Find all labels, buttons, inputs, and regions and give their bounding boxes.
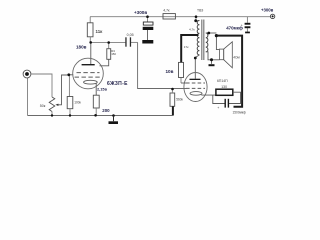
svg-text:130: 130 bbox=[221, 85, 227, 89]
tube V1 grid dashes g2 bbox=[75, 73, 100, 78]
node primary bottom plate V2 bbox=[194, 57, 197, 60]
capacitor 1500u plates bbox=[225, 99, 226, 108]
resistor 200 body bbox=[93, 95, 99, 108]
svg-text:6П14П: 6П14П bbox=[217, 79, 228, 83]
tube V1 plate bar bbox=[82, 64, 95, 65]
transformer primary bottom stub bbox=[195, 55, 199, 79]
ground 470u bar bbox=[245, 32, 250, 34]
wire 100k bottom lead bbox=[69, 109, 71, 116]
node screen R4 bbox=[107, 41, 110, 44]
potentiometer 50k zigzag bbox=[49, 97, 55, 112]
node secondary top bbox=[207, 32, 210, 35]
capacitor 470u plates bbox=[245, 23, 251, 25]
wire 130 right to node bbox=[229, 92, 241, 103]
transformer TVZ primary lead to rail bbox=[195, 17, 197, 21]
node rail pot bbox=[51, 114, 53, 116]
wire plate lead down to tube V1 bbox=[90, 42, 92, 64]
capacitor 0,05 plates bbox=[125, 37, 126, 46]
ground C1 bar bbox=[142, 40, 153, 44]
wire cathode branch down to cap bbox=[213, 95, 225, 103]
feedback thick wire left bbox=[181, 35, 242, 107]
node rail 200 bbox=[94, 114, 97, 117]
resistor 130 body bold bbox=[216, 89, 233, 95]
svg-text:+: + bbox=[241, 24, 243, 28]
svg-text:4Ом: 4Ом bbox=[233, 55, 239, 59]
node plate V1 bbox=[89, 41, 92, 44]
wire rail left end down to R 11k bbox=[89, 17, 91, 23]
capacitor C1 negative plate bbox=[143, 27, 154, 30]
tube V2 envelope bbox=[184, 73, 207, 102]
svg-text:180в: 180в bbox=[76, 45, 87, 50]
node rail cap C1 bbox=[146, 15, 149, 18]
svg-text:100к: 100к bbox=[74, 100, 81, 104]
svg-text:10в: 10в bbox=[166, 69, 174, 74]
svg-text:4,7к: 4,7к bbox=[163, 9, 170, 13]
resistor 560k body bbox=[170, 93, 175, 106]
wire secondary bottom bbox=[206, 52, 220, 60]
svg-text:11к: 11к bbox=[96, 29, 104, 34]
resistor 100k body bbox=[67, 97, 73, 109]
node feedback tap bbox=[215, 34, 218, 37]
ground main stub bbox=[113, 116, 115, 122]
node rail ground bbox=[112, 114, 115, 117]
tube V1 cathode bbox=[84, 80, 98, 84]
svg-text:1500мкф: 1500мкф bbox=[233, 111, 247, 115]
svg-text:150: 150 bbox=[111, 52, 116, 56]
transformer TVZ secondary winding bbox=[206, 33, 208, 52]
wire bottom ground rail bbox=[28, 115, 174, 117]
wire 560k bottom lead thick bbox=[172, 106, 174, 115]
wire V2 screen resistor leads bbox=[180, 78, 182, 84]
svg-text:4,7к: 4,7к bbox=[189, 27, 195, 31]
wire R4 bottom lead to screen grid bbox=[100, 59, 109, 66]
svg-text:+300в: +300в bbox=[134, 10, 147, 15]
wire 560k top lead bbox=[171, 89, 173, 93]
svg-text:+: + bbox=[217, 106, 219, 110]
wire 11k bottom lead bbox=[89, 37, 91, 43]
wire top B+ rail bbox=[90, 16, 270, 18]
svg-text:560к: 560к bbox=[176, 98, 183, 102]
tube V2 cathode bbox=[190, 92, 202, 96]
svg-text:200: 200 bbox=[102, 108, 110, 113]
resistor 4,7k body bbox=[163, 14, 175, 19]
wire R4 top lead bbox=[108, 43, 110, 49]
pot wiper arrow bbox=[57, 75, 69, 105]
svg-text:2,15в: 2,15в bbox=[97, 87, 108, 92]
wire secondary top to speaker node bbox=[206, 32, 217, 34]
ground secondary bar bbox=[209, 64, 215, 66]
tube V1 envelope bbox=[73, 58, 104, 89]
wire 470u lower lead bbox=[246, 28, 248, 32]
wire jack to pot top bbox=[31, 74, 52, 97]
svg-text:6Ж3П-Е: 6Ж3П-Е bbox=[107, 81, 128, 87]
resistor R4 screen body bbox=[107, 49, 111, 60]
input jack X1 bbox=[23, 70, 31, 78]
wire grid node to tube V1 bbox=[69, 74, 73, 76]
transformer primary top stub bbox=[196, 20, 199, 22]
wire V2 cathode to RC network bbox=[202, 94, 216, 97]
wire C1 mid lead bbox=[147, 30, 149, 40]
speaker cone bbox=[224, 42, 233, 68]
terminal +300v dot bbox=[272, 15, 274, 17]
transformer core bbox=[201, 20, 203, 61]
wire corner down to grid line V2 bbox=[138, 42, 187, 88]
tube V1 grid dashes g1 bbox=[75, 76, 100, 78]
speaker coil bbox=[219, 49, 223, 60]
wire V1 cathode lead bbox=[95, 84, 97, 96]
junction dots bbox=[51, 15, 218, 116]
wire pot bottom to rail bbox=[51, 112, 53, 116]
resistor 11k body bbox=[87, 23, 93, 37]
svg-text:50к: 50к bbox=[40, 104, 46, 108]
svg-text:0,05: 0,05 bbox=[127, 33, 134, 37]
node primary top bbox=[194, 19, 197, 22]
ground secondary stub bbox=[211, 60, 213, 64]
terminal +300v bbox=[270, 14, 274, 18]
svg-text:+300в: +300в bbox=[261, 8, 274, 13]
svg-text:ТВЗ: ТВЗ bbox=[197, 9, 203, 13]
speaker lead top bbox=[216, 36, 219, 49]
tube V2 plate bar bbox=[190, 79, 201, 80]
resistor screen V2 body bbox=[179, 62, 184, 77]
capacitor 470u lead bbox=[246, 17, 248, 23]
wire jack sleeve down bbox=[27, 78, 29, 116]
capacitor C1 positive plate bbox=[143, 22, 153, 25]
wire grid node down to 100k bbox=[68, 75, 70, 97]
tube V2 grid dashes g2 bbox=[186, 83, 205, 88]
wire 200 bottom lead bbox=[95, 108, 97, 116]
tube V2 grid dashes g1 bbox=[186, 87, 205, 89]
svg-text:17к: 17к bbox=[184, 45, 189, 49]
feedback thick wire right loop bbox=[216, 36, 242, 107]
ground main symbol bbox=[109, 121, 119, 124]
wire coupling cap to corner bbox=[131, 41, 138, 43]
node rail 100k bbox=[69, 114, 71, 116]
node grid V2 bbox=[171, 88, 174, 91]
wire plate node horizontal bbox=[90, 41, 125, 43]
node grid V1 bbox=[67, 73, 70, 76]
node secondary ground bbox=[210, 58, 213, 61]
capacitor filter C1 lead bbox=[147, 17, 149, 22]
node rail transformer bbox=[195, 15, 198, 18]
transformer TVZ primary winding bbox=[197, 21, 199, 55]
